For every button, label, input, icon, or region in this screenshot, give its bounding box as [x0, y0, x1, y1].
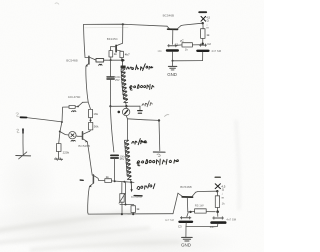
annotation script1	[127, 64, 153, 71]
wire riser to Q5	[173, 193, 178, 214]
electrode bar input stub	[16, 155, 31, 157]
resistor R5 horizontal	[191, 209, 215, 213]
node link dot	[125, 204, 127, 206]
node rail3 dot C	[130, 181, 132, 183]
wire chain tail below rail3	[130, 182, 132, 189]
resistor R13 LED bottom	[215, 191, 219, 211]
node input junction	[61, 121, 63, 123]
node top branch junction	[202, 43, 204, 45]
node chain/tap dot	[125, 105, 127, 107]
label stub squiggle	[157, 154, 160, 156]
label C7 value	[120, 154, 126, 161]
terminal input plug	[21, 116, 27, 118]
LED X top	[201, 16, 206, 21]
node left column dot	[59, 131, 61, 133]
switch S1 lever	[77, 102, 91, 109]
label TR1 mark	[71, 139, 75, 142]
terminal input2 mark	[17, 129, 20, 133]
meter M1 circle	[122, 106, 129, 115]
wire stub down	[158, 121, 161, 151]
transistor Q4 bottom-left	[89, 175, 98, 187]
label LED top tag	[199, 11, 206, 13]
ground GND top	[168, 66, 176, 70]
wire branch link	[120, 204, 134, 206]
wire stub right	[127, 119, 158, 121]
wire GND bottom drop	[185, 227, 187, 238]
trimmer TR1 circle	[60, 132, 78, 139]
node bottom rail dot A	[121, 213, 123, 215]
node mid tap	[109, 105, 111, 107]
node R8/R9 dot	[90, 119, 92, 121]
node LED branch junction	[216, 210, 219, 213]
annotation script6	[137, 183, 155, 189]
node rail3 dot A	[114, 180, 116, 182]
wire branch B vertical	[125, 182, 127, 204]
resistor R3 under JFET gate	[109, 51, 113, 60]
ghost line under rail	[85, 26, 128, 28]
resistor R6 100-470	[62, 106, 77, 123]
terminal input squiggle	[16, 113, 19, 117]
resistor R2 on mid rail	[94, 59, 124, 63]
resistor R9 lower of pair	[89, 122, 93, 131]
annotation script2	[130, 84, 154, 90]
label Q4 tick	[80, 179, 83, 181]
capacitor C7 dark mid	[111, 155, 118, 181]
label LED top vtext	[206, 15, 210, 29]
capacitor C3 bottom-left electrolytic	[180, 212, 193, 227]
label M1 plus blob	[118, 111, 121, 114]
wire mid tap across	[110, 105, 140, 107]
label R2 mark below	[99, 64, 102, 65]
capacitor C1 top-left electrolytic	[167, 44, 178, 60]
node LED top junction	[202, 22, 204, 24]
dash below arrow	[134, 195, 142, 197]
resistor R7 220k left	[55, 144, 63, 161]
wire left tall drop	[84, 24, 85, 57]
wire caps common top	[172, 60, 202, 62]
wire Q4 emitter to bottom rail	[88, 186, 90, 212]
node top GND junction	[172, 60, 174, 62]
wire Q3 emitter down	[87, 142, 92, 175]
transistor Q3 BC546B input	[78, 131, 90, 142]
label faint dash right	[165, 115, 169, 117]
label C5 100n	[115, 75, 121, 82]
wire input gnd stub	[22, 131, 24, 155]
capacitor C4 bottom-right electrolytic	[212, 212, 226, 227]
transistor Q1 BC546B upper-left	[85, 56, 94, 66]
capacitor C2 top-right electrolytic	[197, 44, 208, 61]
ground GND bottom	[182, 237, 193, 241]
wire top rail right	[181, 23, 202, 25]
transistor Q6 BC546B top	[167, 26, 181, 45]
paper speck top	[55, 3, 59, 4]
slash input stub	[19, 152, 27, 159]
wire left column	[59, 122, 62, 143]
LED X bottom	[215, 184, 220, 189]
transistor Q5 bottom-right	[178, 192, 196, 212]
transistor Q2 BF245C JFET	[110, 24, 122, 52]
wire top rail	[84, 24, 167, 26]
resistor R1 LED top	[201, 23, 205, 43]
wire Q5 collector to LED branch	[196, 191, 217, 192]
resistor R4 under JFET source	[120, 51, 124, 60]
trimmer R11 branch A	[119, 182, 125, 214]
diode chain D-upper	[121, 60, 128, 106]
node R2 rail dot A	[110, 59, 112, 61]
node top-rail/JFET junction	[122, 23, 124, 25]
wire mid column lower	[110, 106, 114, 152]
node rail3 dot B	[123, 181, 125, 183]
capacitor C6 small hanging	[138, 106, 142, 113]
capacitor C5 100n mid column	[107, 60, 114, 106]
wire caps common bottom	[186, 225, 218, 227]
terminal input2 tick	[22, 129, 24, 133]
resistor R14 link top	[177, 43, 203, 47]
resistor R10 on rail3	[99, 179, 134, 183]
node bottom rail dot B	[132, 213, 134, 215]
wire input line	[27, 118, 62, 122]
annotation script4	[132, 139, 147, 145]
wire Q1 emitter down to switch	[86, 66, 88, 102]
label LED bottom tag	[215, 176, 220, 178]
node R2 rail dot B	[121, 59, 124, 62]
wire GND top drop	[172, 61, 174, 66]
wire bottom rail	[88, 212, 173, 214]
wire meter to stub tee	[126, 116, 127, 140]
electrode bar stub	[153, 151, 165, 153]
diode chain D-lower	[125, 140, 132, 182]
node emitter/R5 dot	[189, 211, 191, 213]
arrow chain tail	[130, 189, 132, 192]
label R6 mark	[72, 110, 76, 113]
annotation script3	[142, 101, 152, 107]
resistor R8 upper of pair	[89, 109, 93, 122]
resistor R12 branch B	[131, 206, 135, 215]
annotation script5	[137, 159, 178, 166]
label LED bottom vtext	[221, 184, 225, 199]
node LED bottom junction	[216, 190, 218, 192]
node stub corner	[158, 119, 160, 121]
